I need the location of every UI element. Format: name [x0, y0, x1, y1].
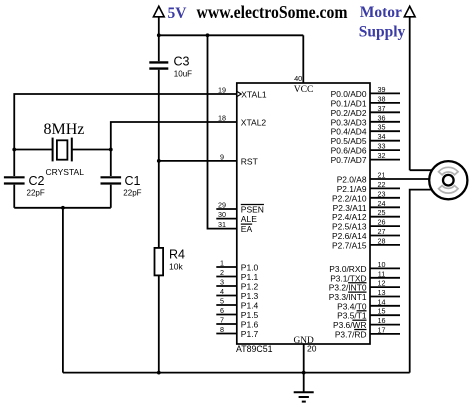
pin 20 GND — [293, 336, 316, 354]
svg-text:34: 34 — [378, 132, 386, 141]
wire GND pin drop — [303, 344, 305, 392]
wire XTAL2 net — [111, 122, 237, 176]
pin 21 P2.0/A8 — [337, 171, 386, 185]
crystal X1 8MHz — [53, 138, 72, 162]
svg-text:XTAL2: XTAL2 — [241, 117, 267, 127]
pin 24 P2.3/A11 — [333, 199, 400, 213]
node R4-rail junction — [157, 371, 161, 375]
svg-text:C1: C1 — [125, 174, 141, 188]
svg-text:P0.7/AD7: P0.7/AD7 — [331, 155, 367, 165]
svg-text:CRYSTAL: CRYSTAL — [46, 167, 85, 177]
node 5V-C3 junction — [157, 33, 161, 37]
svg-text:1: 1 — [220, 259, 224, 268]
pin 10 P3.0/RXD — [329, 260, 400, 274]
pin 4 P1.3 — [216, 287, 258, 301]
svg-text:29: 29 — [218, 201, 226, 210]
pin 2 P1.1 — [216, 268, 258, 282]
svg-text:12: 12 — [378, 279, 386, 288]
watermark www.electroSome.com — [197, 2, 348, 22]
svg-text:37: 37 — [378, 104, 386, 113]
wire motor lower — [410, 190, 433, 373]
svg-text:5V: 5V — [168, 5, 188, 22]
resistor R4 — [155, 161, 164, 373]
pin 13 P3.3/INT1 — [329, 288, 400, 302]
svg-text:RST: RST — [241, 156, 258, 166]
pin 9 RST — [220, 153, 258, 167]
label 5V — [168, 5, 188, 22]
svg-text:3: 3 — [220, 278, 224, 287]
svg-text:P0.6/AD6: P0.6/AD6 — [331, 146, 367, 156]
node cap-rail junction — [61, 206, 65, 210]
capacitor C2 — [4, 177, 25, 208]
pin 1 P1.0 — [216, 259, 258, 273]
svg-text:16: 16 — [378, 316, 386, 325]
wire motor supply to motor — [410, 169, 433, 171]
motor M1 — [429, 161, 467, 199]
svg-text:P2.2/A10: P2.2/A10 — [332, 193, 367, 203]
pin 3 P1.2 — [216, 278, 258, 292]
svg-text:C3: C3 — [174, 55, 190, 69]
svg-text:7: 7 — [220, 316, 224, 325]
svg-text:AT89C51: AT89C51 — [236, 344, 273, 354]
svg-text:Motor: Motor — [360, 4, 402, 21]
pin 17 P3.7/RD — [335, 325, 400, 339]
value 10uF — [174, 69, 192, 78]
pin 12 P3.2/INT0 — [329, 279, 400, 293]
node RST junction — [157, 159, 161, 163]
svg-text:P0.2/AD2: P0.2/AD2 — [331, 108, 367, 118]
svg-text:EA: EA — [241, 224, 253, 234]
svg-text:40: 40 — [294, 74, 302, 83]
svg-text:P2.7/A15: P2.7/A15 — [332, 240, 367, 250]
pin 28 P2.7/A15 — [332, 236, 400, 250]
node crystal left — [12, 148, 16, 152]
svg-text:R4: R4 — [169, 247, 185, 261]
pin 27 P2.6/A14 — [332, 227, 400, 241]
pin 32 P0.7/AD7 — [331, 151, 400, 165]
svg-text:27: 27 — [378, 227, 386, 236]
pin 6 P1.5 — [216, 306, 258, 320]
svg-text:10k: 10k — [169, 262, 183, 272]
wire capacitors to ground — [14, 207, 111, 209]
svg-text:2: 2 — [220, 268, 224, 277]
svg-text:36: 36 — [378, 113, 386, 122]
svg-text:14: 14 — [378, 297, 386, 306]
svg-text:P0.4/AD4: P0.4/AD4 — [331, 127, 367, 137]
svg-text:13: 13 — [378, 288, 386, 297]
svg-text:21: 21 — [378, 171, 386, 180]
svg-text:P1.7: P1.7 — [241, 329, 259, 339]
wire cap rail down — [62, 208, 64, 373]
pin 34 P0.5/AD5 — [331, 132, 400, 146]
svg-text:VCC: VCC — [294, 84, 314, 95]
svg-text:P1.1: P1.1 — [241, 272, 259, 282]
svg-text:33: 33 — [378, 142, 386, 151]
pin 26 P2.5/A13 — [332, 218, 400, 232]
pin 29 PSEN — [216, 201, 264, 215]
svg-text:38: 38 — [378, 94, 386, 103]
pin 14 P3.4/T0 — [337, 297, 400, 311]
pin 5 P1.4 — [216, 297, 258, 311]
svg-text:4: 4 — [220, 287, 224, 296]
svg-text:24: 24 — [378, 199, 386, 208]
value C1 22pF — [123, 188, 141, 197]
pin 7 P1.6 — [216, 316, 258, 330]
pin 39 P0.0/AD0 — [331, 85, 400, 99]
svg-text:P1.0: P1.0 — [241, 262, 259, 272]
svg-text:30: 30 — [218, 210, 226, 219]
label C1 — [125, 174, 141, 188]
wire XTAL1 net — [14, 94, 237, 176]
pin 33 P0.6/AD6 — [331, 142, 400, 156]
pin 11 P3.1/TXD — [330, 269, 400, 283]
pin 22 P2.1/A9 — [337, 180, 400, 194]
svg-text:32: 32 — [378, 151, 386, 160]
pin 18 XTAL2 — [218, 114, 266, 128]
pin 38 P0.1/AD1 — [331, 94, 400, 108]
svg-text:35: 35 — [378, 123, 386, 132]
pin 25 P2.4/A12 — [332, 208, 400, 222]
pin 23 P2.2/A10 — [332, 189, 400, 203]
svg-text:25: 25 — [378, 208, 386, 217]
svg-text:P1.3: P1.3 — [241, 291, 259, 301]
svg-text:PSEN: PSEN — [241, 204, 264, 214]
svg-text:18: 18 — [218, 114, 226, 123]
pin 8 P1.7 — [216, 325, 258, 339]
svg-text:10uF: 10uF — [174, 69, 192, 78]
svg-text:28: 28 — [378, 236, 386, 245]
wire RST net — [159, 160, 237, 162]
node crystal right — [109, 148, 113, 152]
label CRYSTAL — [46, 167, 85, 177]
wire EA to 5V — [208, 35, 237, 228]
svg-text:11: 11 — [378, 269, 385, 278]
value C2 22pF — [27, 188, 45, 197]
pin 15 P3.5/T1 — [337, 307, 400, 321]
pin 30 ALE — [216, 210, 257, 224]
ground symbol — [294, 392, 314, 401]
pin 36 P0.3/AD3 — [331, 113, 400, 127]
svg-text:P3.7/RD: P3.7/RD — [335, 329, 367, 339]
pin 31 EA — [218, 220, 252, 234]
svg-text:XTAL1: XTAL1 — [241, 89, 267, 99]
svg-text:22pF: 22pF — [27, 188, 45, 197]
svg-text:Supply: Supply — [359, 24, 406, 41]
svg-text:ALE: ALE — [241, 214, 257, 224]
svg-text:5: 5 — [220, 297, 224, 306]
svg-text:9: 9 — [220, 153, 224, 162]
power symbol Motor Supply — [404, 6, 415, 170]
svg-text:8MHz: 8MHz — [44, 121, 85, 138]
svg-text:31: 31 — [218, 220, 226, 229]
svg-text:15: 15 — [378, 307, 386, 316]
wire ground rail — [63, 372, 410, 374]
power symbol 5V — [153, 6, 164, 35]
label C2 — [29, 174, 45, 188]
label Motor Supply — [359, 4, 406, 40]
value 8MHz — [44, 121, 85, 138]
IC U1 AT89C51 body — [237, 83, 370, 344]
pin 35 P0.4/AD4 — [331, 123, 400, 137]
svg-text:10: 10 — [378, 260, 386, 269]
svg-text:22pF: 22pF — [123, 188, 141, 197]
svg-text:39: 39 — [378, 85, 386, 94]
svg-text:P0.0/AD0: P0.0/AD0 — [331, 89, 367, 99]
svg-text:P1.6: P1.6 — [241, 319, 259, 329]
wire 5V rail — [159, 35, 303, 83]
svg-text:22: 22 — [378, 180, 386, 189]
label AT89C51 — [236, 344, 273, 354]
wire crystal left — [14, 149, 52, 151]
pin 40 VCC — [294, 74, 314, 95]
svg-text:P1.2: P1.2 — [241, 281, 259, 291]
svg-text:17: 17 — [378, 325, 386, 334]
pin 37 P0.2/AD2 — [331, 104, 400, 118]
pin 19 XTAL1 — [218, 86, 267, 100]
svg-text:26: 26 — [378, 218, 386, 227]
capacitor C3 — [149, 35, 168, 161]
value 10k — [169, 262, 183, 272]
wire P2.0 to motor — [370, 178, 431, 180]
svg-text:6: 6 — [220, 306, 224, 315]
svg-text:www.electroSome.com: www.electroSome.com — [197, 2, 348, 22]
label R4 — [169, 247, 185, 261]
svg-text:C2: C2 — [29, 174, 45, 188]
svg-text:P1.4: P1.4 — [241, 300, 259, 310]
wire crystal right — [72, 149, 111, 151]
pin 16 P3.6/WR — [333, 316, 400, 330]
svg-text:P2.0/A8: P2.0/A8 — [337, 175, 367, 185]
node 5V-EA junction — [206, 33, 210, 37]
svg-text:23: 23 — [378, 189, 386, 198]
label C3 — [174, 55, 190, 69]
node GND-rail junction — [302, 371, 306, 375]
svg-text:8: 8 — [220, 325, 224, 334]
svg-text:20: 20 — [307, 344, 317, 354]
svg-text:P1.5: P1.5 — [241, 310, 259, 320]
svg-text:19: 19 — [218, 86, 226, 95]
capacitor C1 — [101, 177, 122, 208]
